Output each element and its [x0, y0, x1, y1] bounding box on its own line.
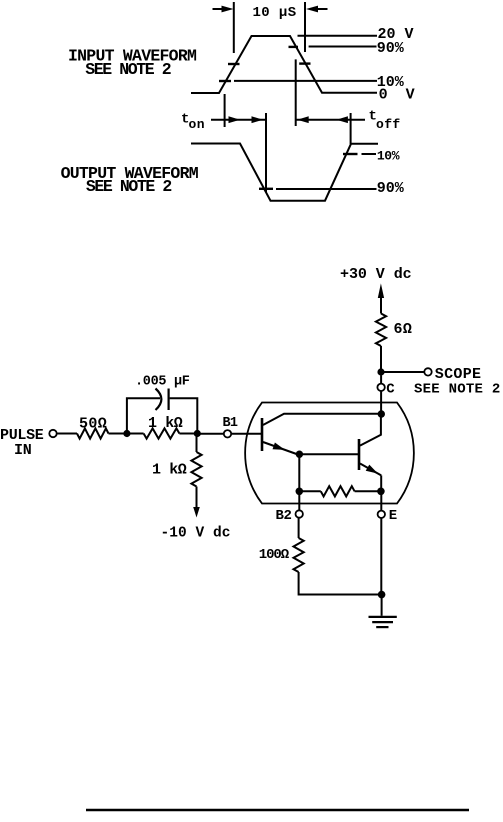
wire R 1k vertical to -10V arrow	[196, 487, 198, 510]
wire R 1k to node B	[179, 433, 197, 435]
node ground junction dot	[378, 591, 386, 599]
svg-text:SEE NOTE 2: SEE NOTE 2	[85, 60, 171, 79]
svg-text:B1: B1	[223, 416, 238, 431]
10% leader dash (output)	[362, 153, 377, 155]
wire input terminal to R 50ohm	[57, 433, 77, 435]
supply arrow -10 V dc	[193, 507, 200, 518]
wire Q2 emitter down to node E-row	[380, 475, 382, 491]
node Q1-emitter junction dot	[296, 451, 303, 458]
terminal E (open circle)	[378, 511, 385, 518]
transistor Q2 collector lead	[360, 414, 381, 446]
output waveform trace	[191, 144, 378, 201]
supply arrow +30 V dc	[378, 283, 384, 298]
svg-text:IN: IN	[14, 442, 32, 459]
svg-text:.005 μF: .005 μF	[135, 374, 190, 389]
wire node top up to terminal C	[380, 391, 382, 414]
terminal PULSE IN (open circle)	[49, 430, 56, 437]
input waveform trace	[191, 36, 377, 93]
svg-text:50Ω: 50Ω	[79, 415, 107, 432]
t-off left boundary line (from 90% of input fall)	[295, 59, 297, 126]
dimension line right (10 microsecond measurement)	[304, 2, 306, 52]
wire left dot to package resistor	[299, 490, 321, 492]
capacitor .005 uF curved plate	[156, 389, 162, 411]
resistor 6 ohm	[376, 314, 386, 347]
wire scope node up to R 6ohm	[380, 346, 382, 372]
transistor package outline (oval)	[245, 403, 414, 504]
node package-resistor left junction dot	[296, 488, 304, 496]
wire node A up to capacitor branch	[127, 398, 160, 433]
wire ground node to ground symbol	[381, 595, 383, 616]
wire R 6ohm to +30V arrow	[380, 298, 382, 314]
wire R 100ohm to ground rail	[299, 572, 382, 595]
dimension arrow right	[306, 6, 328, 13]
node top (collector junction dot)	[378, 410, 385, 417]
90% reference line (output)	[276, 188, 377, 190]
svg-text:E: E	[389, 508, 397, 524]
terminal C (open circle)	[377, 384, 384, 391]
tick 10% on output rising edge	[343, 153, 358, 155]
transistor Q1 collector lead	[263, 414, 379, 425]
wire package resistor to right dot	[355, 490, 381, 492]
svg-text:SCOPE: SCOPE	[435, 366, 482, 383]
svg-text:6Ω: 6Ω	[394, 321, 413, 338]
wire terminal E down to ground node	[380, 518, 382, 595]
svg-text:90%: 90%	[377, 40, 405, 57]
footer rule	[86, 809, 469, 811]
svg-text:B2: B2	[276, 508, 292, 524]
transistor Q2 base bar	[358, 439, 361, 470]
transistor Q1 base bar	[261, 418, 264, 451]
resistor 100 ohm	[294, 538, 304, 572]
t-on right boundary line (to 90% of output fall)	[265, 113, 267, 192]
svg-text:SEE NOTE 2: SEE NOTE 2	[86, 177, 172, 196]
wire terminal B1 to Q1 base	[231, 433, 261, 435]
svg-text:1 kΩ: 1 kΩ	[152, 462, 187, 479]
svg-text:+30 V dc: +30 V dc	[340, 266, 412, 283]
svg-text:C: C	[386, 382, 395, 398]
svg-text:10 μS: 10 μS	[253, 5, 297, 21]
resistor internal (package)	[321, 486, 355, 496]
10% reference line (input)	[234, 80, 377, 82]
t-off arrow line with double arrowheads	[296, 116, 365, 123]
transistor Q1 emitter lead with arrow	[263, 442, 297, 454]
svg-text:-10 V dc: -10 V dc	[161, 525, 231, 541]
wire node A to R 1k horizontal	[127, 433, 144, 435]
t-on left boundary line (from 10% of input rise)	[224, 94, 226, 127]
tick 90% on input falling edge	[289, 46, 299, 48]
t-off right boundary line (to 10% of output rise)	[350, 113, 352, 144]
node scope junction dot	[377, 368, 384, 375]
dimension line left (10 microsecond measurement)	[233, 2, 235, 53]
svg-text:100Ω: 100Ω	[259, 547, 290, 563]
wire terminal C up to scope node	[380, 376, 382, 384]
svg-text:0 V: 0 V	[379, 87, 415, 104]
wire capacitor to right corner	[170, 398, 198, 433]
label t-on	[181, 112, 205, 133]
ground symbol	[369, 617, 397, 627]
transistor Q2 emitter lead with arrow	[360, 464, 381, 476]
capacitor .005 uF straight plate	[168, 389, 170, 411]
resistor 50 ohm	[77, 428, 109, 438]
resistor 1 kOhm horizontal	[144, 428, 180, 438]
t-on arrow line with double arrowheads	[211, 116, 266, 123]
node package-resistor right junction dot	[377, 488, 385, 496]
label t-off	[369, 109, 401, 133]
wire Q1 emitter node down to terminal B2	[298, 454, 300, 510]
dimension arrow left	[213, 6, 234, 13]
node B (junction dot)	[194, 430, 201, 437]
wire Q1 emitter to Q2 base	[299, 453, 358, 455]
wire scope node to scope terminal	[381, 371, 424, 373]
terminal B2 (open circle)	[296, 510, 303, 517]
90% reference line (input)	[309, 46, 377, 48]
tick 90% on output falling edge	[259, 188, 273, 190]
svg-text:on: on	[189, 117, 205, 132]
wire R 50ohm to node A	[109, 433, 128, 435]
tick 50% on input falling edge	[299, 62, 310, 64]
wire node B down to R 1k vertical	[196, 434, 198, 453]
tick 10% on input rising edge	[219, 80, 231, 82]
terminal B1 (open circle)	[224, 430, 231, 437]
svg-text:10%: 10%	[377, 149, 400, 164]
terminal SCOPE (open circle)	[424, 368, 431, 375]
node A (junction dot)	[123, 430, 130, 437]
20 V reference line	[298, 35, 378, 37]
svg-text:SEE NOTE 2: SEE NOTE 2	[414, 382, 501, 398]
wire right dot down to terminal E	[380, 491, 382, 510]
resistor 1 kOhm vertical	[191, 452, 201, 487]
svg-text:off: off	[376, 117, 401, 132]
label PULSE IN	[0, 427, 44, 459]
wire node B to terminal B1	[197, 433, 224, 435]
wire terminal B2 down to R 100ohm	[298, 518, 300, 538]
svg-text:90%: 90%	[377, 180, 405, 197]
tick 50% on input rising edge	[228, 63, 240, 65]
